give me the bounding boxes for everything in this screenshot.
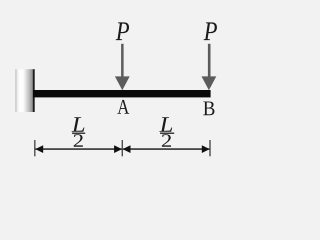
beam AB [33,90,211,97]
node label A [117,100,129,114]
fixed wall support [15,69,33,112]
label L/2 (right) : numerator L [159,117,172,131]
dimension tick right [209,140,211,156]
dim arrowhead left-outer [35,145,43,153]
load arrow P at A [115,44,130,90]
denominator 2 left [74,134,83,147]
fraction bar left [72,133,85,134]
dimension tick left [34,140,36,156]
wall edge line [33,69,35,112]
node label B [203,101,214,115]
dim arrowhead left-inner [114,145,122,153]
denominator 2 right [162,134,171,147]
load arrow P at B [202,44,217,90]
label L/2 (left) : numerator L [72,117,85,131]
load label P (left) [116,22,129,40]
dim arrowhead right-outer [202,145,210,153]
load label P (right) [204,22,217,40]
fraction bar right [160,133,174,134]
dim arrowhead right-inner [123,145,131,153]
dimension tick middle [121,140,123,156]
dimension line [35,148,210,150]
